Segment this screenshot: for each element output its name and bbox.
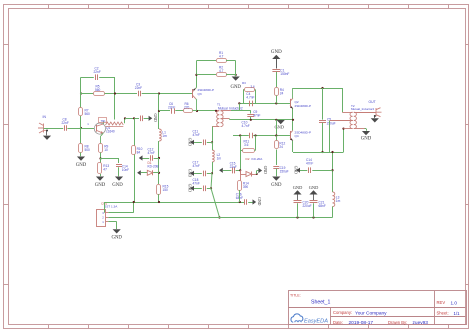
svg-text:Your Company: Your Company — [355, 311, 387, 317]
svg-text:47nF: 47nF — [193, 133, 200, 137]
svg-text:Q4: Q4 — [295, 134, 299, 138]
svg-text:150nF: 150nF — [280, 72, 289, 76]
svg-text:22nF: 22nF — [168, 106, 175, 110]
svg-text:GND: GND — [257, 197, 261, 205]
svg-text:GND: GND — [263, 166, 267, 174]
svg-text:47nF: 47nF — [253, 114, 260, 118]
svg-text:24: 24 — [279, 145, 283, 149]
svg-text:zuev93: zuev93 — [413, 320, 429, 326]
svg-text:390: 390 — [243, 185, 249, 189]
svg-text:GND: GND — [188, 169, 192, 177]
svg-text:GND: GND — [95, 183, 106, 188]
svg-text:2ST 1.3A: 2ST 1.3A — [105, 205, 119, 209]
svg-text:47: 47 — [103, 168, 107, 172]
svg-text:1m: 1m — [217, 156, 222, 160]
svg-text:Company:: Company: — [333, 310, 352, 315]
svg-text:GND: GND — [112, 183, 123, 188]
svg-text:REV: REV — [437, 300, 446, 305]
svg-text:R3: R3 — [242, 81, 246, 85]
svg-text:10nF: 10nF — [122, 168, 129, 172]
svg-text:47nF: 47nF — [148, 151, 155, 155]
svg-text:GND: GND — [274, 124, 284, 129]
svg-text:3.6: 3.6 — [251, 85, 256, 89]
svg-text:47nF: 47nF — [193, 181, 200, 185]
svg-text:KD-20A: KD-20A — [252, 157, 264, 161]
svg-text:2SD480D-P: 2SD480D-P — [295, 104, 312, 108]
svg-text:GND: GND — [111, 236, 122, 241]
svg-text:3.6: 3.6 — [244, 143, 249, 147]
svg-text:D2: D2 — [246, 157, 250, 161]
svg-text:GND: GND — [230, 85, 241, 90]
svg-text:24: 24 — [280, 91, 284, 95]
svg-text:4.7nF: 4.7nF — [242, 124, 250, 128]
svg-text:4.7: 4.7 — [219, 55, 224, 59]
svg-text:10: 10 — [104, 148, 108, 152]
svg-text:GND: GND — [188, 184, 192, 192]
svg-text:22nF: 22nF — [135, 86, 142, 90]
svg-text:TITLE:: TITLE: — [290, 293, 301, 297]
svg-text:1m: 1m — [336, 199, 341, 203]
svg-text:Date:: Date: — [333, 320, 343, 325]
svg-text:GND: GND — [188, 138, 192, 146]
svg-text:GND: GND — [293, 185, 303, 190]
svg-text:TR1: TR1 — [101, 119, 107, 123]
svg-text:c1640: c1640 — [106, 130, 115, 134]
svg-text:22uF: 22uF — [230, 165, 237, 169]
svg-text:Mutual_Inductor2: Mutual_Inductor2 — [351, 107, 375, 111]
svg-text:EasyEDA: EasyEDA — [304, 318, 328, 324]
svg-text:560: 560 — [95, 88, 101, 92]
svg-text:1m: 1m — [162, 134, 167, 138]
svg-text:84: 84 — [137, 150, 141, 154]
svg-text:Sheet_1: Sheet_1 — [311, 300, 330, 306]
svg-text:47nF: 47nF — [306, 161, 313, 165]
svg-text:500: 500 — [85, 148, 91, 152]
svg-text:2019-08-17: 2019-08-17 — [349, 320, 374, 326]
svg-text:Drawn By:: Drawn By: — [388, 320, 407, 325]
svg-text:OUT: OUT — [369, 100, 376, 104]
svg-text:GND: GND — [294, 166, 298, 174]
svg-text:Sheet:: Sheet: — [437, 311, 449, 316]
svg-text:1/1: 1/1 — [454, 311, 461, 316]
svg-text:IN: IN — [43, 115, 47, 119]
svg-text:22nF: 22nF — [94, 70, 101, 74]
svg-text:GND: GND — [271, 183, 282, 188]
svg-text:4.7nF: 4.7nF — [246, 95, 254, 99]
svg-text:150uF: 150uF — [327, 122, 336, 126]
svg-text:4.7: 4.7 — [219, 69, 224, 73]
svg-text:GND: GND — [361, 136, 372, 141]
svg-text:560: 560 — [85, 112, 91, 116]
svg-text:68nF: 68nF — [319, 204, 326, 208]
svg-text:KD-20B: KD-20B — [148, 165, 159, 169]
svg-text:Q3: Q3 — [198, 92, 202, 96]
svg-text:270: 270 — [184, 106, 190, 110]
svg-text:GND: GND — [76, 163, 87, 168]
svg-text:47nF: 47nF — [193, 164, 200, 168]
svg-text:220uF: 220uF — [303, 204, 312, 208]
svg-text:GND: GND — [271, 50, 282, 55]
svg-text:150uF: 150uF — [280, 169, 289, 173]
svg-text:GND: GND — [153, 114, 157, 122]
svg-text:1.0: 1.0 — [451, 300, 458, 305]
svg-text:22nF: 22nF — [62, 121, 69, 125]
svg-text:GND: GND — [309, 185, 319, 190]
svg-text:150: 150 — [163, 188, 169, 192]
